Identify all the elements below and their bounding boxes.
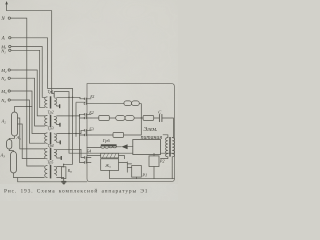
svg-text:N: N (0, 17, 5, 22)
svg-text:Тр1: Тр1 (48, 89, 54, 94)
svg-text:А2: А2 (1, 119, 7, 125)
svg-text:питания: питания (141, 135, 163, 141)
svg-text:N3: N3 (0, 98, 6, 104)
svg-text:Тр3: Тр3 (48, 126, 54, 131)
svg-text:Р2: Р2 (159, 158, 166, 163)
svg-text:А1: А1 (16, 135, 22, 141)
svg-text:Тр5: Тр5 (47, 159, 53, 164)
svg-text:А3: А3 (0, 153, 5, 159)
svg-text:М2: М2 (0, 68, 7, 74)
svg-text:С: С (158, 110, 161, 115)
svg-text:Б3: Б3 (88, 126, 94, 131)
svg-text:Тр2: Тр2 (48, 109, 54, 114)
svg-text:N2: N2 (0, 76, 6, 82)
svg-text:М3: М3 (0, 89, 7, 95)
svg-text:Тр4: Тр4 (48, 143, 54, 148)
svg-text:Б2: Б2 (88, 110, 94, 115)
svg-text:Б1: Б1 (89, 94, 95, 99)
svg-text:Элем.: Элем. (144, 127, 158, 133)
svg-text:Гр6: Гр6 (102, 138, 111, 143)
svg-text:Рис. 193. Схема комплексной ап: Рис. 193. Схема комплексной аппаратуры Э… (4, 187, 148, 194)
svg-text:Р1: Р1 (141, 172, 147, 177)
svg-text:Б4: Б4 (86, 149, 92, 154)
svg-text:N1: N1 (0, 49, 6, 55)
